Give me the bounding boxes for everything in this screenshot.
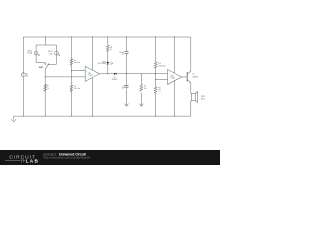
svg-text:−: −: [169, 80, 170, 82]
svg-text:100 Ohm: 100 Ohm: [159, 66, 167, 68]
svg-text:100 Ohm: 100 Ohm: [74, 88, 81, 90]
svg-text:R2: R2: [110, 47, 112, 49]
svg-text:100uA: 100uA: [27, 52, 33, 55]
svg-text:http://circuitlab.com/c/2skb4k: http://circuitlab.com/c/2skb4kqw5f: [44, 156, 90, 160]
svg-text:TL081: TL081: [170, 78, 175, 80]
svg-text:10k: 10k: [144, 88, 147, 90]
svg-text:2k: 2k: [47, 88, 49, 90]
svg-text:Q1: Q1: [192, 73, 194, 75]
svg-text:C2: C2: [122, 86, 124, 88]
svg-text:C1: C1: [122, 54, 124, 56]
svg-text:D1: D1: [113, 77, 115, 79]
svg-text:R6: R6: [158, 88, 160, 90]
svg-text:8ohm: 8ohm: [201, 98, 206, 100]
svg-text:LAB: LAB: [26, 158, 40, 163]
svg-text:R5: R5: [74, 86, 76, 88]
svg-text:10k: 10k: [158, 90, 161, 92]
svg-text:TL081: TL081: [88, 75, 93, 77]
svg-text:1k: 1k: [110, 49, 112, 51]
svg-text:100 Ohm: 100 Ohm: [74, 62, 81, 64]
svg-text:(LTL-307EE): (LTL-307EE): [97, 63, 106, 65]
svg-text:LED1: LED1: [102, 61, 106, 63]
svg-text:2N3904: 2N3904: [192, 76, 198, 78]
svg-text:1N4148: 1N4148: [112, 79, 118, 81]
svg-text:1uF: 1uF: [122, 88, 125, 90]
svg-text:R1: R1: [74, 60, 76, 62]
svg-text:−: −: [86, 77, 87, 79]
